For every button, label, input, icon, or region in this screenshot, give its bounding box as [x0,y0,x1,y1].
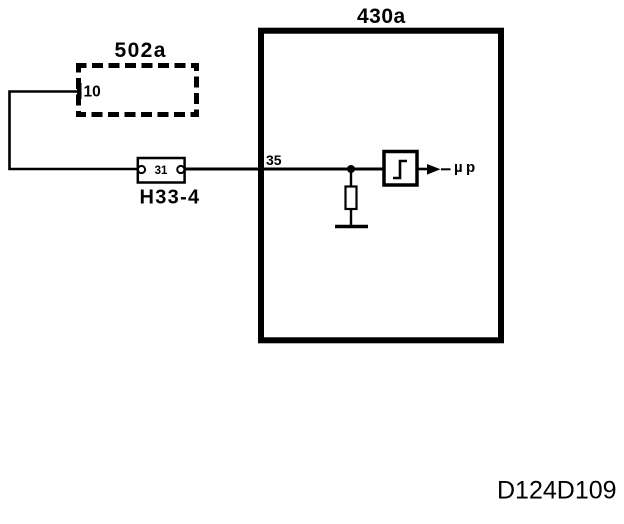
svg-text:µ: µ [454,159,463,176]
svg-text:10: 10 [84,84,101,101]
svg-text:502a: 502a [115,39,167,62]
svg-text:p: p [466,159,475,176]
svg-text:D124D109: D124D109 [497,477,617,505]
svg-text:31: 31 [155,165,168,177]
svg-text:430a: 430a [357,5,406,28]
svg-text:35: 35 [266,152,282,168]
svg-text:H33-4: H33-4 [140,187,201,209]
